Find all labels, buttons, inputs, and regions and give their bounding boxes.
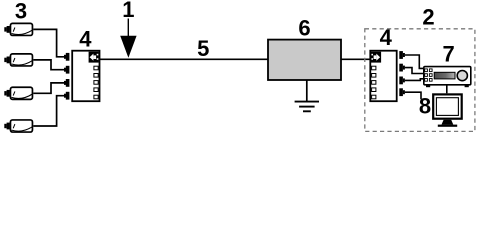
svg-text:2: 2 [422, 5, 434, 30]
wire box6 to enclosure [341, 58, 370, 60]
junction box 6 [268, 40, 341, 80]
wire receiver to monitor [446, 85, 448, 93]
wire detector 3c to hub [33, 83, 64, 93]
wire detector 3a to hub [33, 29, 64, 56]
plug P2 left hub [64, 66, 69, 74]
svg-text:4: 4 [79, 26, 92, 51]
plug Q1 right hub [399, 51, 405, 59]
plug P3 left hub [64, 79, 69, 87]
wire Q3 to receiver [405, 79, 424, 81]
svg-text:4: 4 [380, 25, 393, 50]
plug Q3 right hub [399, 77, 405, 85]
svg-text:8: 8 [419, 94, 431, 119]
wire cable 5 [100, 58, 268, 60]
detector 3a [4, 23, 32, 35]
detector 3c [4, 87, 32, 99]
wire Q4 to monitor [405, 92, 421, 99]
arrow 1 [120, 19, 136, 58]
svg-text:6: 6 [298, 16, 310, 41]
detector 3b [4, 54, 32, 66]
hub U1 (left box 4) [72, 51, 99, 101]
enclosure 2 (dashed) [365, 29, 475, 132]
plug P4 left hub [64, 92, 69, 100]
wire Q2 to receiver [405, 68, 424, 74]
svg-text:3: 3 [15, 0, 27, 24]
monitor 8 [433, 94, 462, 126]
svg-text:5: 5 [197, 36, 209, 61]
plug Q4 right hub [399, 88, 405, 96]
wire Q1 to receiver [405, 55, 424, 68]
wire detector 3d to hub [33, 96, 64, 126]
svg-text:7: 7 [442, 42, 454, 67]
receiver 7 [424, 67, 471, 88]
wire detector 3b to hub [33, 60, 64, 70]
detector 3d [4, 120, 32, 132]
hub U2 (right box 4) [370, 51, 396, 101]
ground [295, 80, 319, 111]
plug Q2 right hub [399, 64, 405, 72]
plug P1 left hub [64, 53, 69, 61]
